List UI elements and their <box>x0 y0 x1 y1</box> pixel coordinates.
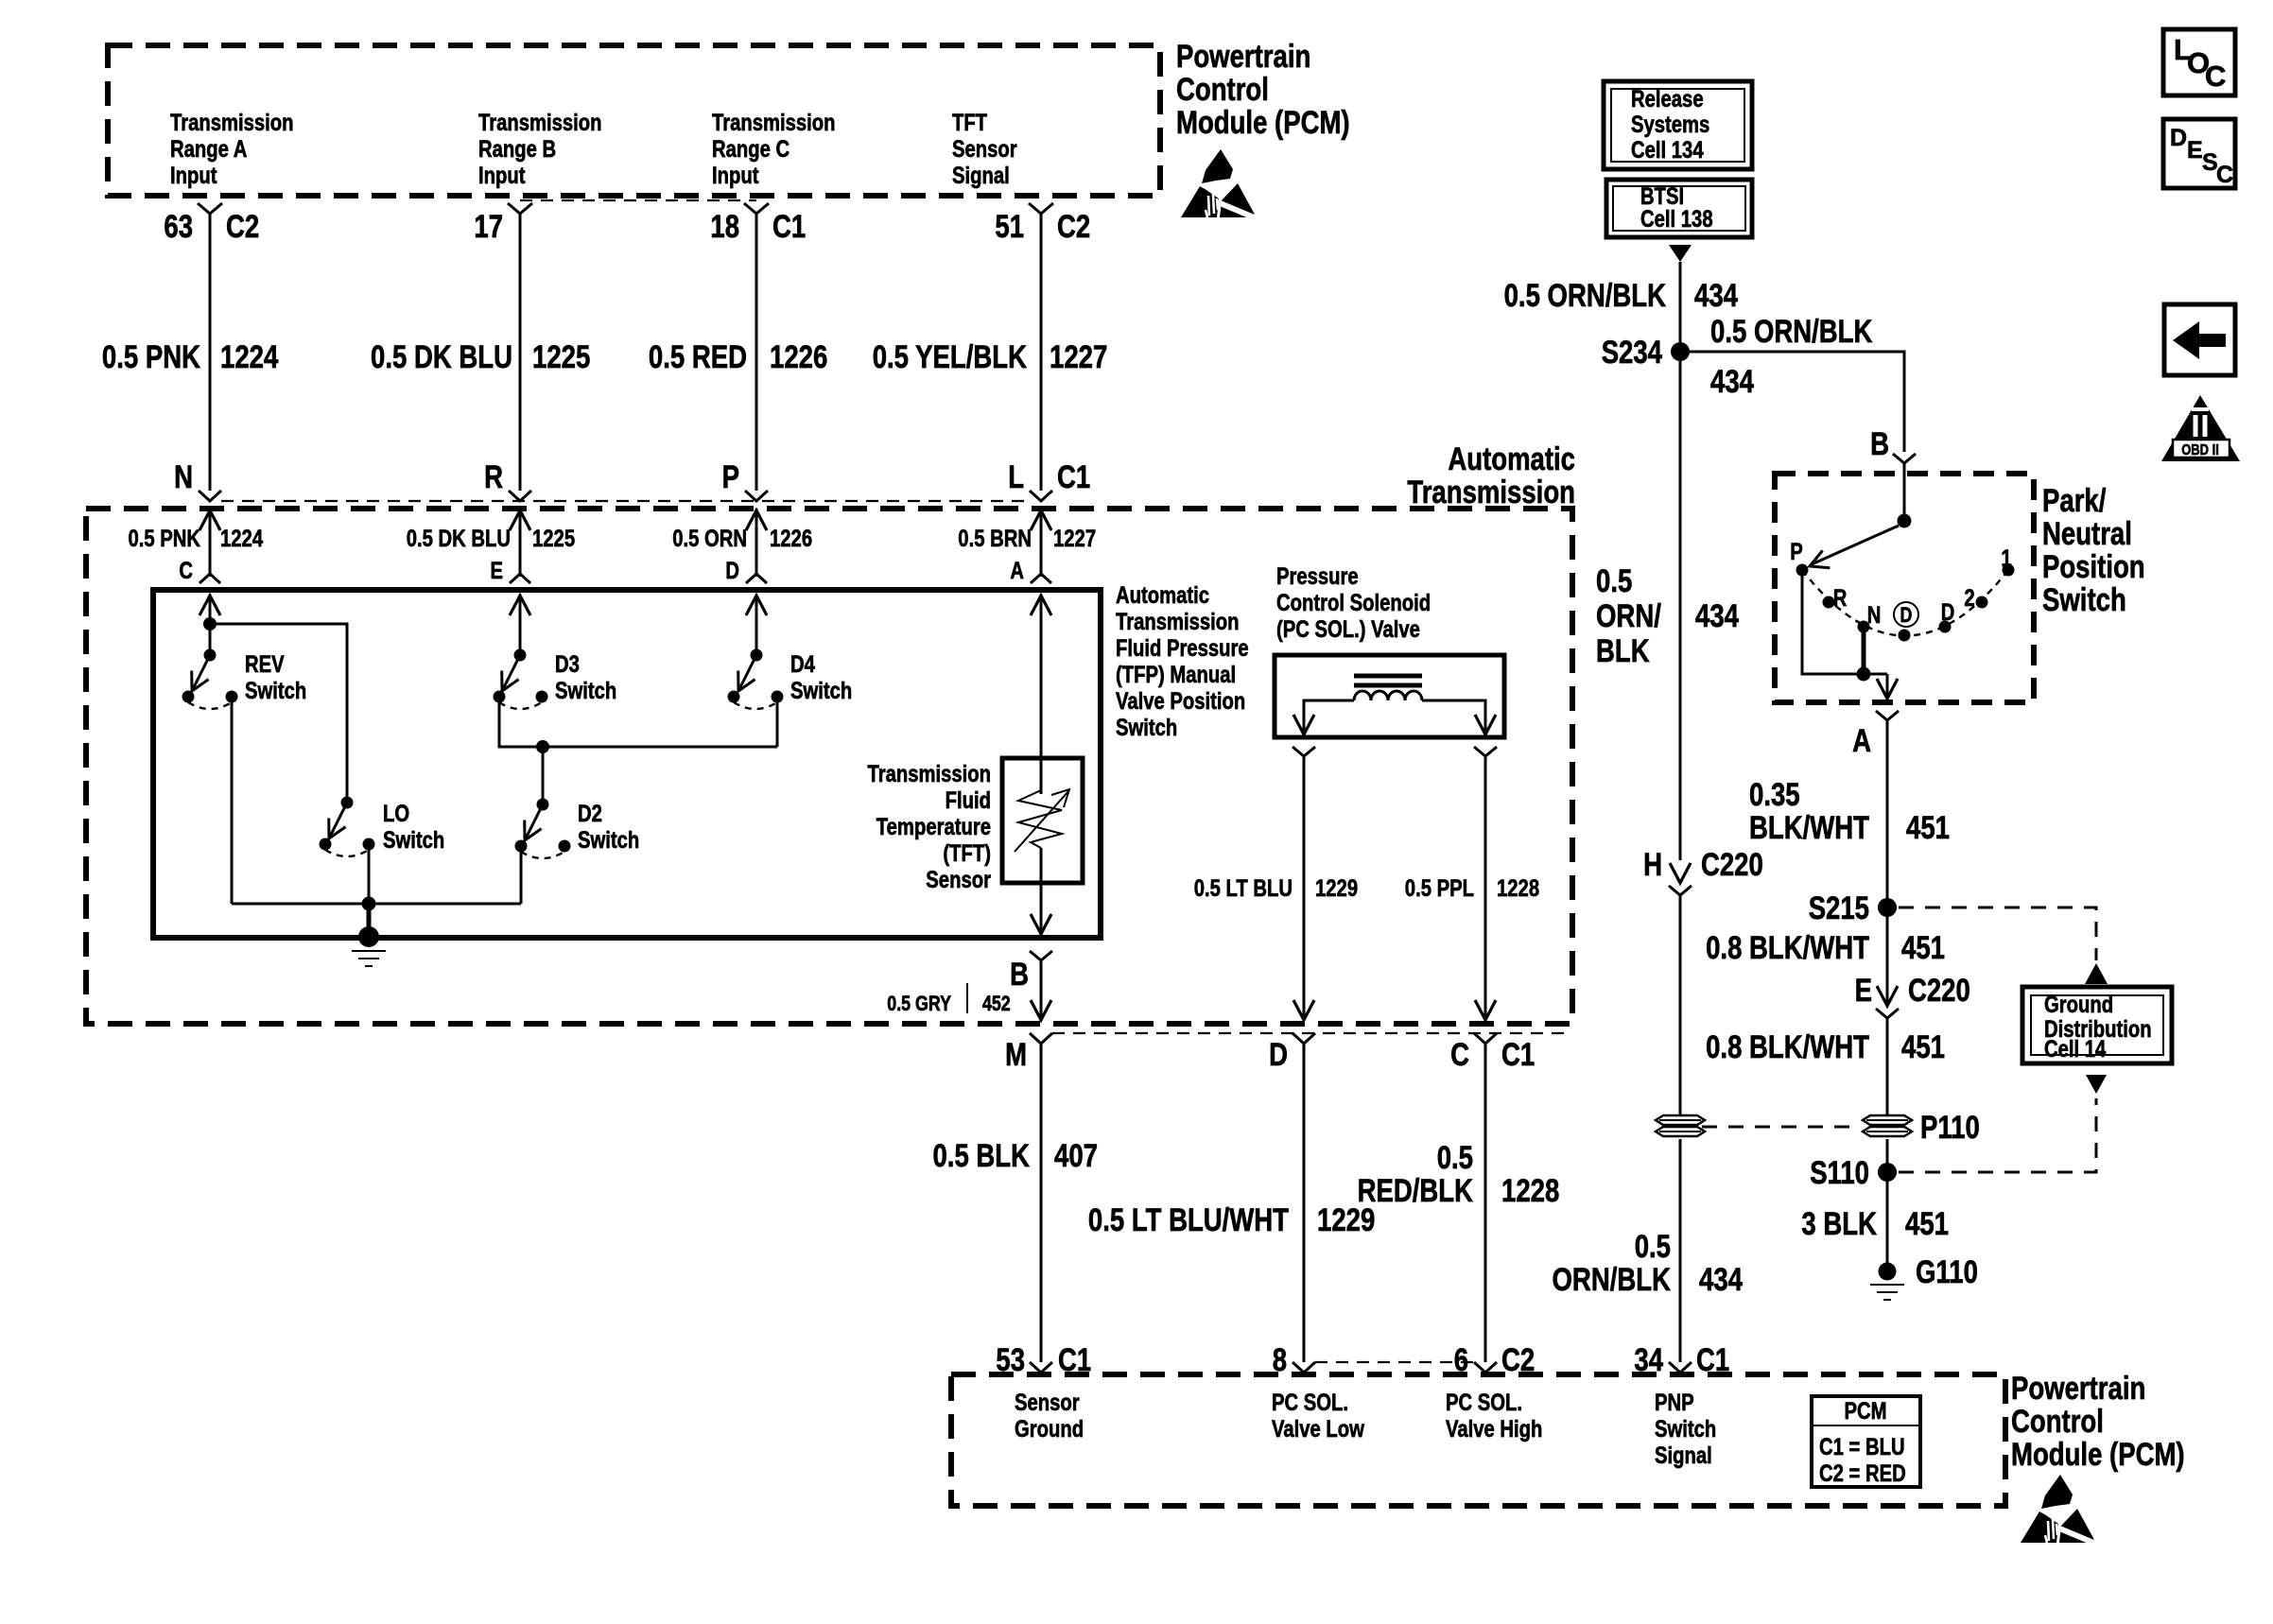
D3 switch <box>494 649 548 710</box>
label C220 (H) <box>1701 847 1763 883</box>
wire D4 contact down <box>776 697 779 747</box>
PNP contact N <box>1858 621 1870 633</box>
pin R fork <box>509 491 531 501</box>
splice S215 <box>1878 898 1897 917</box>
svg-text:Switch: Switch <box>1116 715 1177 741</box>
svg-text:0.5 BLK: 0.5 BLK <box>933 1138 1031 1174</box>
svg-text:452: 452 <box>982 992 1011 1015</box>
svg-text:451: 451 <box>1901 930 1945 966</box>
label PNP Switch Signal <box>1655 1390 1716 1469</box>
PCM connector legend box <box>1812 1396 1920 1487</box>
svg-text:D2: D2 <box>578 801 602 827</box>
svg-text:Control: Control <box>1176 72 1269 108</box>
label 0.5 LT BLU/WHT 1229 <box>1088 1202 1375 1238</box>
pin M label <box>1005 1037 1027 1073</box>
wire 1224 entry arrow <box>200 509 220 577</box>
PCM module box (top) <box>108 45 1160 196</box>
svg-text:451: 451 <box>1906 810 1950 846</box>
svg-text:1227: 1227 <box>1050 339 1107 375</box>
label 0.5 ORN/BLK 434 (PNP signal) <box>1553 1229 1744 1298</box>
wire 451 upper <box>1886 720 1889 1004</box>
svg-text:Input: Input <box>170 163 217 189</box>
D2 switch <box>515 799 571 859</box>
label D circled <box>1894 602 1918 627</box>
svg-text:Switch: Switch <box>2042 582 2126 618</box>
svg-text:0.5 ORN/BLK: 0.5 ORN/BLK <box>1504 278 1667 314</box>
TFT sensor wire lower <box>1031 848 1051 934</box>
ground stub <box>367 904 372 936</box>
svg-text:E: E <box>1855 973 1872 1009</box>
svg-text:G110: G110 <box>1916 1254 1978 1290</box>
coil lead high side <box>1422 700 1496 734</box>
svg-text:0.5 ORN: 0.5 ORN <box>672 526 747 552</box>
svg-text:C: C <box>1450 1037 1469 1073</box>
svg-text:B: B <box>1010 957 1029 993</box>
svg-text:434: 434 <box>1695 598 1739 634</box>
connector dashed line (8-6 row) <box>1315 1361 1474 1363</box>
REV switch wire stub <box>200 596 220 655</box>
pin 8 label <box>1273 1342 1287 1378</box>
label 0.5 ORN 1226 (inside) <box>672 526 812 552</box>
svg-text:Powertrain: Powertrain <box>2011 1371 2145 1407</box>
svg-text:S110: S110 <box>1810 1155 1869 1191</box>
svg-text:D: D <box>1269 1037 1288 1073</box>
svg-text:Position: Position <box>2042 549 2145 585</box>
solenoid coil L1 <box>1354 676 1422 700</box>
svg-text:C1: C1 <box>772 209 806 245</box>
dashed link S215 to ground distribution <box>1899 907 2096 960</box>
off-page arrow to ground distribution <box>2085 963 2108 984</box>
svg-text:0.5 PPL: 0.5 PPL <box>1405 875 1474 902</box>
svg-text:Switch: Switch <box>578 827 639 854</box>
svg-text:Control Solenoid: Control Solenoid <box>1276 590 1431 616</box>
wire 451 middle <box>1886 1018 1889 1114</box>
label 0.8 BLK/WHT 451 (first) <box>1706 930 1945 966</box>
svg-text:Transmission: Transmission <box>1116 609 1240 635</box>
label 0.5 GRY 452 <box>887 983 1010 1015</box>
svg-text:1226: 1226 <box>770 526 812 552</box>
pin R label <box>484 459 503 495</box>
label 0.5 RED 1226 <box>649 339 827 375</box>
pin B label <box>1010 957 1029 993</box>
label LO Switch <box>383 801 444 854</box>
label 0.5 RED/BLK 1228 <box>1358 1140 1560 1209</box>
svg-text:N: N <box>1867 602 1882 629</box>
svg-text:Ground: Ground <box>2044 992 2113 1018</box>
svg-text:1225: 1225 <box>532 526 575 552</box>
svg-text:Switch: Switch <box>383 827 444 854</box>
svg-text:Transmission: Transmission <box>170 110 294 136</box>
wire 1227 PCM-to-AT <box>1040 214 1043 491</box>
wire 1226 entry arrow <box>746 509 767 577</box>
pin 53 fork <box>1030 1362 1052 1373</box>
pin L C1 label <box>1008 459 1090 495</box>
svg-text:Range B: Range B <box>478 136 556 163</box>
PNP contact R <box>1823 596 1835 609</box>
svg-text:(TFT): (TFT) <box>943 840 991 867</box>
svg-text:Pressure: Pressure <box>1276 563 1359 590</box>
svg-text:PNP: PNP <box>1655 1390 1694 1416</box>
svg-text:D: D <box>2170 125 2187 151</box>
svg-text:R: R <box>1833 585 1848 612</box>
svg-text:0.5 DK BLU: 0.5 DK BLU <box>407 526 511 552</box>
svg-text:Valve Low: Valve Low <box>1272 1416 1364 1443</box>
dashed link P110 halves <box>1702 1126 1859 1129</box>
svg-text:C: C <box>2205 60 2226 93</box>
svg-text:Signal: Signal <box>952 163 1010 189</box>
wire 1224 PCM-to-AT <box>209 214 212 491</box>
wire branch to LO switch <box>210 624 347 803</box>
pin 51 C2 connector fork <box>1029 203 1053 214</box>
connector C1 dashed line (pins 17-18) <box>520 199 756 201</box>
label G110 <box>1916 1254 1978 1290</box>
svg-text:C2: C2 <box>226 209 259 245</box>
PNP switch pivot <box>1898 514 1912 528</box>
svg-text:(PC SOL.) Valve: (PC SOL.) Valve <box>1276 616 1420 643</box>
label PC SOL. Valve High <box>1446 1390 1542 1443</box>
svg-text:Valve Position: Valve Position <box>1116 688 1245 715</box>
svg-text:ORN/: ORN/ <box>1596 598 1661 634</box>
PNP contact arc <box>1802 570 2008 636</box>
svg-text:Sensor: Sensor <box>952 136 1017 163</box>
TFT thermistor <box>1015 789 1069 852</box>
wire 1228 lower <box>1484 1044 1487 1362</box>
label 0.5 PNK 1224 (inside) <box>129 526 264 552</box>
wire D3 contact down <box>499 697 777 747</box>
svg-text:Cell 138: Cell 138 <box>1640 206 1713 233</box>
svg-text:B: B <box>1870 426 1889 462</box>
wire LO contact down <box>368 844 371 904</box>
label Powertrain Control Module (PCM) bottom <box>2011 1371 2185 1473</box>
svg-text:A: A <box>1010 558 1024 584</box>
label 0.5 BLK 407 <box>933 1138 1099 1174</box>
svg-text:407: 407 <box>1054 1138 1098 1174</box>
pin H label <box>1643 847 1662 883</box>
pin 51 C2 label <box>995 209 1090 245</box>
label 2 <box>1964 585 1974 612</box>
svg-text:0.5 PNK: 0.5 PNK <box>129 526 201 552</box>
label 0.5 PPL 1228 <box>1405 875 1539 902</box>
svg-text:0.8 BLK/WHT: 0.8 BLK/WHT <box>1706 930 1869 966</box>
connector C220 arrow E <box>1877 986 1898 1006</box>
svg-text:1228: 1228 <box>1497 875 1539 902</box>
pin 34 fork <box>1669 1362 1692 1373</box>
wire 1225 entry arrow <box>510 509 530 577</box>
coil lead low side <box>1293 700 1354 734</box>
ESD symbol (top PCM) <box>1181 149 1258 219</box>
svg-text:451: 451 <box>1901 1029 1945 1065</box>
pin C label <box>179 558 193 584</box>
svg-text:N: N <box>174 459 193 495</box>
ESD symbol (bottom PCM) <box>2021 1475 2098 1545</box>
label TFT Sensor Signal <box>952 110 1017 189</box>
BTSI Cell 138 box <box>1606 180 1752 237</box>
connector P110 (right half) <box>1863 1115 1912 1136</box>
D4 switch wire stub <box>746 596 767 655</box>
svg-text:0.5 PNK: 0.5 PNK <box>102 339 200 375</box>
svg-text:Automatic: Automatic <box>1116 582 1209 609</box>
label Park/Neutral Position Switch <box>2042 483 2145 618</box>
pin C C1 fork <box>1474 1033 1497 1044</box>
pin 8 fork <box>1293 1362 1315 1373</box>
label Transmission Fluid Temperature (TFT) Sensor <box>868 761 992 893</box>
label C220 (E) <box>1908 973 1970 1009</box>
svg-text:Range C: Range C <box>712 136 789 163</box>
svg-text:Systems: Systems <box>1631 112 1709 138</box>
svg-text:Temperature: Temperature <box>876 814 991 840</box>
connector C1 dashed line (N-L row) <box>221 500 1030 502</box>
label 0.5 ORN/BLK (branch) <box>1710 314 1873 350</box>
pin 17 connector fork <box>508 203 532 214</box>
svg-text:0.8 BLK/WHT: 0.8 BLK/WHT <box>1706 1029 1869 1065</box>
label Automatic Transmission <box>1407 441 1575 510</box>
svg-text:REV: REV <box>245 651 285 678</box>
svg-text:C2: C2 <box>1057 209 1090 245</box>
pin 34 C1 label <box>1634 1342 1729 1378</box>
svg-text:1224: 1224 <box>220 339 278 375</box>
svg-text:Cell 14: Cell 14 <box>2044 1036 2106 1063</box>
svg-text:M: M <box>1005 1037 1027 1073</box>
back arrow icon <box>2164 304 2235 375</box>
valve low connector fork <box>1293 747 1315 756</box>
pin D fork <box>1293 1033 1315 1044</box>
svg-text:18: 18 <box>710 209 739 245</box>
svg-text:Switch: Switch <box>245 678 306 704</box>
label 0.5 BRN 1227 (inside) <box>958 526 1096 552</box>
svg-text:Control: Control <box>2011 1404 2104 1440</box>
svg-text:0.5 GRY: 0.5 GRY <box>887 992 951 1015</box>
D4 switch <box>728 649 784 710</box>
svg-text:Switch: Switch <box>1655 1416 1716 1443</box>
label 0.5 DK BLU 1225 <box>371 339 590 375</box>
svg-text:Cell 134: Cell 134 <box>1631 137 1704 164</box>
svg-text:C220: C220 <box>1908 973 1970 1009</box>
svg-text:Fluid: Fluid <box>946 787 991 814</box>
PNP contact 2 <box>1976 596 1988 609</box>
svg-text:0.35: 0.35 <box>1749 777 1800 813</box>
label Transmission Range C Input <box>712 110 836 189</box>
label 0.8 BLK/WHT 451 (second) <box>1706 1029 1945 1065</box>
label P110 <box>1920 1110 1980 1146</box>
label PC SOL. Valve Low <box>1272 1390 1364 1443</box>
svg-text:D4: D4 <box>790 651 815 678</box>
svg-text:PC SOL.: PC SOL. <box>1272 1390 1348 1416</box>
svg-text:451: 451 <box>1905 1206 1949 1242</box>
PC SOL valve box <box>1275 655 1504 737</box>
svg-text:A: A <box>1852 723 1871 759</box>
svg-text:D: D <box>1900 603 1913 627</box>
svg-text:0.5 BRN: 0.5 BRN <box>958 526 1032 552</box>
svg-text:0.5 DK BLU: 0.5 DK BLU <box>371 339 512 375</box>
wire D2 contact down <box>520 846 523 904</box>
svg-text:Input: Input <box>478 163 526 189</box>
wire 1227 entry arrow <box>1031 509 1051 577</box>
svg-text:Neutral: Neutral <box>2042 516 2132 552</box>
pin 18 C1 label <box>710 209 806 245</box>
wire 434 upper <box>1679 262 1682 860</box>
PNP switch arm <box>1806 526 1899 575</box>
svg-text:0.5 YEL/BLK: 0.5 YEL/BLK <box>873 339 1028 375</box>
TFT sensor wire upper <box>1031 596 1051 794</box>
svg-text:434: 434 <box>1710 364 1754 400</box>
pin N fork <box>199 491 221 501</box>
svg-text:C1: C1 <box>1501 1037 1535 1073</box>
svg-text:Module (PCM): Module (PCM) <box>1176 105 1350 141</box>
svg-text:434: 434 <box>1699 1262 1743 1298</box>
svg-text:Ground: Ground <box>1015 1416 1084 1443</box>
svg-text:Switch: Switch <box>555 678 616 704</box>
pin 63 C2 connector fork <box>198 203 222 214</box>
svg-text:1229: 1229 <box>1315 875 1358 902</box>
pin D fork <box>746 574 767 583</box>
off-page arrow from ground distribution <box>2086 1075 2107 1094</box>
ground (TFP switch) <box>352 926 386 966</box>
svg-text:(TFP) Manual: (TFP) Manual <box>1116 662 1236 688</box>
wire 1228 PPL <box>1475 756 1496 1020</box>
node D2 junction <box>536 740 549 753</box>
svg-text:D3: D3 <box>555 651 580 678</box>
label 0.5 LT BLU 1229 <box>1194 875 1358 902</box>
LO switch <box>320 797 375 857</box>
svg-text:434: 434 <box>1694 278 1738 314</box>
ground bus wire <box>232 903 521 906</box>
svg-text:Transmission: Transmission <box>1407 475 1575 510</box>
svg-text:Module (PCM): Module (PCM) <box>2011 1437 2185 1473</box>
pin 63 C2 label <box>164 209 259 245</box>
park/neutral position switch dashed box <box>1775 474 2034 702</box>
svg-text:Powertrain: Powertrain <box>1176 39 1310 75</box>
svg-text:E: E <box>2187 137 2203 164</box>
pin H fork <box>1669 886 1692 895</box>
pin 17 label <box>474 209 503 245</box>
junction N output <box>1857 667 1871 682</box>
wire N contact down <box>1862 627 1866 674</box>
connector P110 (left half) <box>1656 1115 1705 1136</box>
label 1 <box>2001 545 2011 572</box>
wire 1229 LT BLU <box>1293 756 1314 1020</box>
dashed link S110 to ground distribution <box>1899 1098 2096 1172</box>
label Transmission Range B Input <box>478 110 602 189</box>
label REV Switch <box>245 651 306 704</box>
svg-text:C1: C1 <box>1057 459 1090 495</box>
DESC icon <box>2163 119 2235 188</box>
PNP contact P <box>1796 564 1809 577</box>
svg-text:1227: 1227 <box>1053 526 1096 552</box>
svg-text:3 BLK: 3 BLK <box>1801 1206 1877 1242</box>
svg-text:1225: 1225 <box>532 339 590 375</box>
label R <box>1833 585 1848 612</box>
wire 1225 PCM-to-AT <box>519 214 522 491</box>
svg-text:51: 51 <box>995 209 1024 245</box>
wire 452 <box>1031 960 1051 1020</box>
pin P label <box>722 459 739 495</box>
D3 switch wire stub <box>510 596 530 655</box>
splice S110 <box>1878 1163 1897 1182</box>
svg-text:17: 17 <box>474 209 503 245</box>
pin E fork <box>510 574 530 583</box>
svg-text:C220: C220 <box>1701 847 1763 883</box>
svg-text:ORN/BLK: ORN/BLK <box>1553 1262 1672 1298</box>
svg-text:0.5: 0.5 <box>1437 1140 1473 1176</box>
TFP manual valve position switch box <box>153 590 1101 938</box>
off-page arrow from BTSI <box>1669 245 1692 262</box>
pin A label <box>1010 558 1024 584</box>
svg-text:D: D <box>725 558 739 584</box>
ground distribution cell 14 box <box>2022 987 2172 1063</box>
wire junction to D2 <box>542 747 545 804</box>
label Automatic Transmission Fluid Pressure (TFP) Manual Valve Position Switch <box>1116 582 1249 741</box>
svg-text:Transmission: Transmission <box>712 110 836 136</box>
svg-text:Transmission: Transmission <box>478 110 602 136</box>
pin 18 C1 connector fork <box>744 203 769 214</box>
svg-text:P: P <box>1790 539 1803 565</box>
svg-text:Transmission: Transmission <box>868 761 992 787</box>
svg-text:C1 = BLU: C1 = BLU <box>1819 1434 1905 1460</box>
svg-text:PCM: PCM <box>1845 1398 1887 1425</box>
wire B into PNP <box>1903 463 1906 521</box>
wire PNP output <box>1877 674 1898 699</box>
svg-text:S215: S215 <box>1809 890 1869 926</box>
label 0.5 DK BLU 1225 (inside) <box>407 526 575 552</box>
svg-text:D: D <box>1941 599 1955 626</box>
ground junction dot <box>362 897 376 911</box>
valve high connector fork <box>1474 747 1497 756</box>
svg-text:0.5: 0.5 <box>1596 563 1632 599</box>
connector C220 arrow H <box>1670 863 1691 883</box>
svg-text:0.5 LT BLU/WHT: 0.5 LT BLU/WHT <box>1088 1202 1289 1238</box>
pin P fork <box>745 491 768 501</box>
label 3 BLK 451 <box>1801 1206 1949 1242</box>
REV switch <box>182 649 238 710</box>
pin C fork <box>200 574 220 583</box>
PCM module box (bottom) <box>951 1374 2005 1506</box>
pin 53 C1 label <box>996 1342 1091 1378</box>
svg-text:TFT: TFT <box>952 110 987 136</box>
wire 451 lower <box>1886 1139 1889 1271</box>
svg-text:Release: Release <box>1631 86 1704 112</box>
label Sensor Ground <box>1015 1390 1084 1443</box>
automatic transmission dashed box <box>86 509 1572 1024</box>
label S234 <box>1602 335 1662 371</box>
PNP contact center <box>1899 630 1911 642</box>
wire 407 sensor ground <box>1040 1044 1043 1362</box>
label Transmission Range A Input <box>170 110 294 189</box>
pin L C1 fork <box>1030 491 1052 501</box>
label 0.35 BLK/WHT 451 <box>1749 777 1950 846</box>
wire 1229 lower <box>1303 1044 1306 1362</box>
pin D label (bottom) <box>1269 1037 1288 1073</box>
pin C C1 label <box>1450 1037 1535 1073</box>
pin B label <box>1870 426 1889 462</box>
label 0.5 PNK 1224 <box>102 339 278 375</box>
svg-text:Signal: Signal <box>1655 1443 1712 1469</box>
label S215 <box>1809 890 1869 926</box>
label N <box>1867 602 1882 629</box>
wire 434 branch to PNP B <box>1680 352 1904 452</box>
svg-text:0.5: 0.5 <box>1635 1229 1671 1265</box>
connector C1 dashed line (M-C row) <box>1052 1032 1570 1034</box>
node junction to LO branch <box>203 617 217 631</box>
svg-text:BLK/WHT: BLK/WHT <box>1749 810 1869 846</box>
pin D label <box>725 558 739 584</box>
label 0.5 ORN/BLK 434 (upper) <box>1504 278 1738 314</box>
label 0.5 YEL/BLK 1227 <box>873 339 1108 375</box>
pin A label <box>1852 723 1871 759</box>
splice S234 <box>1671 342 1690 361</box>
svg-text:C2 = RED: C2 = RED <box>1819 1460 1906 1487</box>
svg-text:0.5 ORN/BLK: 0.5 ORN/BLK <box>1710 314 1873 350</box>
wire 1226 PCM-to-AT <box>755 214 758 491</box>
